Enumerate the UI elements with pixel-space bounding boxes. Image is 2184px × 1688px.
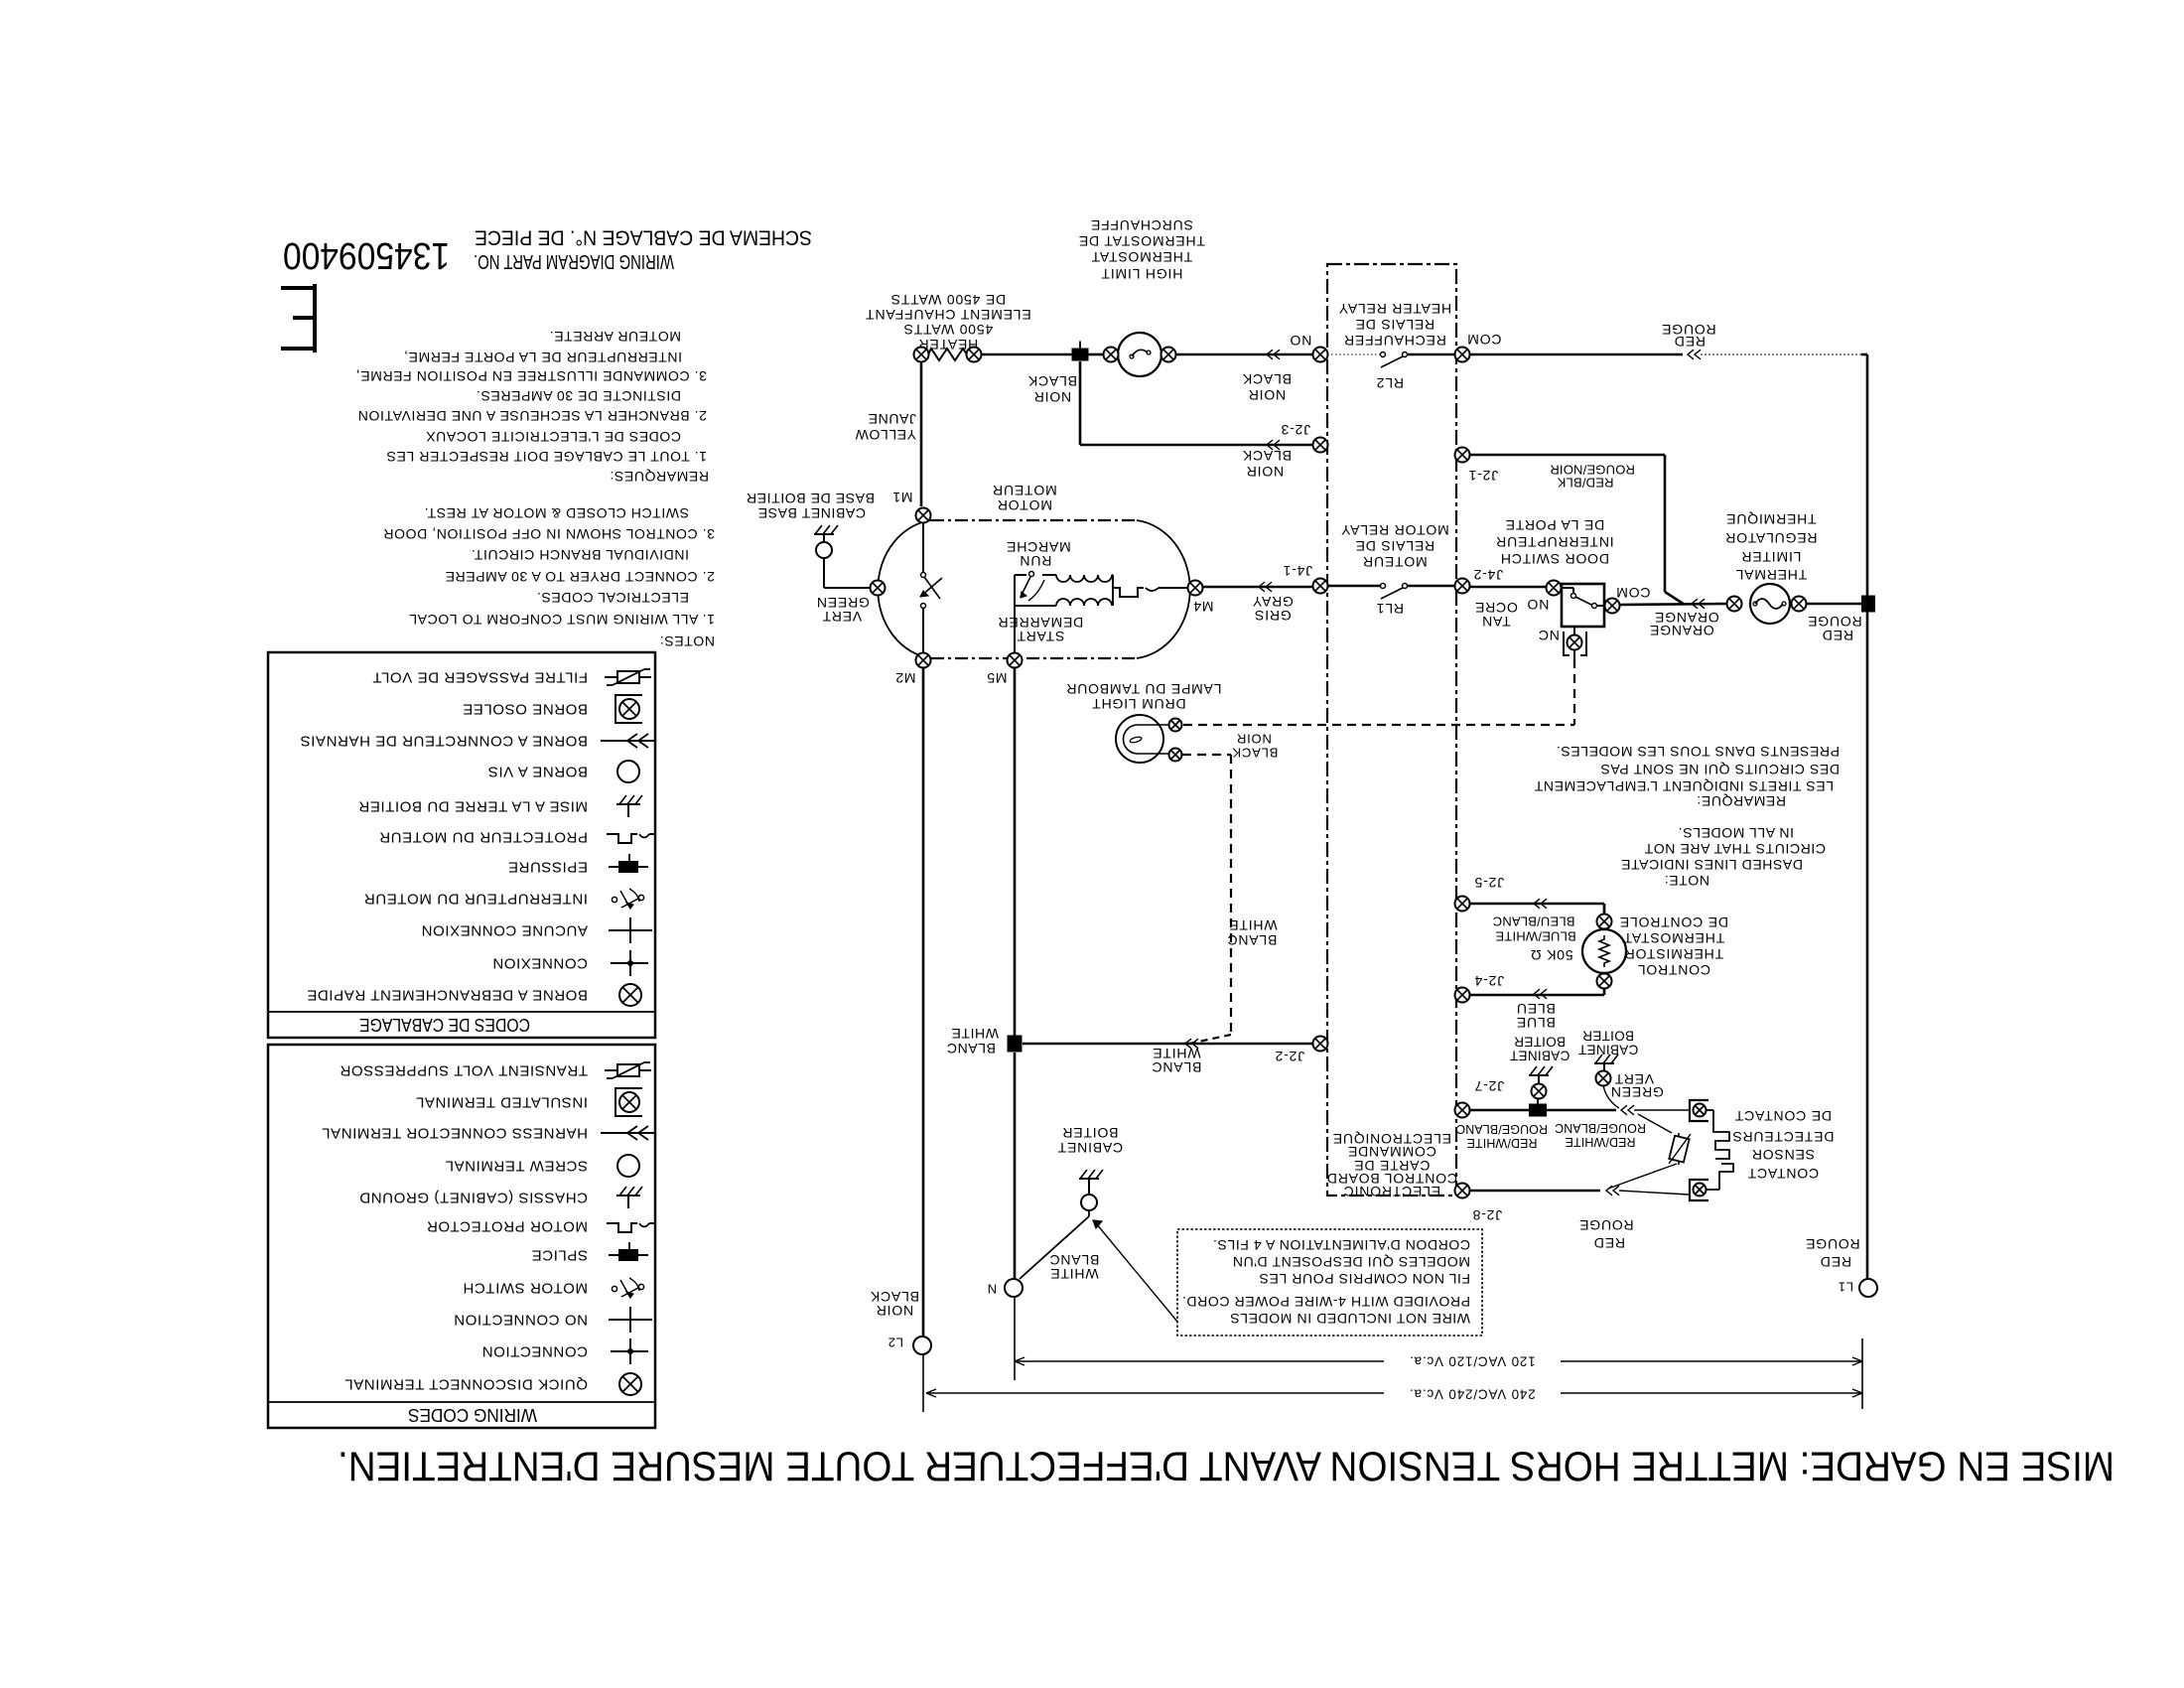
wire splice to heater element (981, 353, 1072, 356)
svg-text:ROUGE: ROUGE (1578, 1217, 1633, 1233)
svg-text:DASHED LINES INDICATE: DASHED LINES INDICATE (1621, 857, 1804, 873)
svg-text:SCREW TERMINAL: SCREW TERMINAL (445, 1158, 588, 1175)
svg-text:MOTOR PROTECTOR: MOTOR PROTECTOR (426, 1218, 588, 1235)
svg-text:TAN: TAN (1481, 614, 1510, 630)
svg-text:J2-5: J2-5 (1474, 875, 1504, 891)
legend symbol: MISE A LA TERRE DU BOITIER (358, 795, 642, 817)
terminal M5 (986, 653, 1022, 687)
svg-text:INTERRUPTEUR DU MOTEUR: INTERRUPTEUR DU MOTEUR (363, 891, 588, 908)
svg-text:BLACK: BLACK (1242, 448, 1292, 464)
svg-text:4500 WATTS: 4500 WATTS (903, 322, 993, 338)
svg-text:PROTECTEUR DU MOTEUR: PROTECTEUR DU MOTEUR (379, 829, 588, 846)
svg-text:M1: M1 (891, 490, 912, 505)
notes block NOTES (English) (383, 505, 715, 649)
svg-text:DE CONTROLE: DE CONTROLE (1619, 914, 1728, 930)
terminal NO of RL2 (1290, 333, 1328, 362)
splice L1 bus to thermal limiter (1861, 596, 1875, 613)
svg-text:NOIR: NOIR (1248, 387, 1286, 403)
svg-text:MOTEUR: MOTEUR (1362, 554, 1427, 570)
legend symbol: PROTECTEUR DU MOTEUR (379, 829, 654, 846)
svg-text:BLACK: BLACK (1232, 746, 1279, 761)
svg-text:J4-2: J4-2 (1473, 567, 1503, 583)
svg-text:BLANC: BLANC (1152, 1059, 1202, 1075)
wire GRAY M4 to J4-1 (1203, 582, 1313, 624)
svg-text:CABINET: CABINET (1578, 1043, 1639, 1057)
terminal thermal limiter left (1727, 597, 1742, 612)
svg-text:IN ALL MODELS.: IN ALL MODELS. (1678, 825, 1794, 841)
svg-text:NO CONNECTION: NO CONNECTION (454, 1312, 588, 1329)
cabinet ground at J2-7 splice (1510, 1035, 1570, 1105)
terminal M4 (1188, 581, 1214, 616)
legend box WIRING CODES (English) (268, 1045, 655, 1428)
svg-text:LAMPE DU TAMBOUR: LAMPE DU TAMBOUR (1066, 681, 1222, 697)
svg-text:VERT: VERT (822, 609, 862, 625)
svg-text:DRUM LIGHT: DRUM LIGHT (1091, 696, 1185, 712)
legend symbol: HARNESS CONNECTOR TERMINAL (322, 1125, 655, 1142)
svg-text:N: N (987, 1282, 997, 1297)
svg-text:CORDON D'ALIMENTATION A 4 FILS: CORDON D'ALIMENTATION A 4 FILS. (1212, 1237, 1470, 1253)
legend symbol: FILTRE PASSAGER DE VOLT (372, 669, 651, 686)
warning text MISE EN GARDE (338, 1444, 2115, 1490)
svg-text:SCHEMA DE CABLAGE N°. DE PIECE: SCHEMA DE CABLAGE N°. DE PIECE (475, 226, 812, 249)
svg-text:GRIS: GRIS (1254, 608, 1291, 624)
svg-text:ROUGE/BLANC: ROUGE/BLANC (1555, 1121, 1646, 1135)
svg-text:THERMOSTAT: THERMOSTAT (1091, 249, 1192, 265)
svg-text:M2: M2 (894, 670, 915, 686)
motor centrifugal switch (920, 522, 942, 655)
svg-text:EPISSURE: EPISSURE (507, 859, 588, 876)
wire WHITE ground jumper at N (1020, 1210, 1099, 1282)
svg-text:DE CONTACT: DE CONTACT (1734, 1108, 1832, 1124)
svg-text:BORNE A VIS: BORNE A VIS (487, 764, 588, 780)
svg-text:REMARQUE:: REMARQUE: (1697, 793, 1786, 809)
svg-text:ROUGE: ROUGE (1805, 1236, 1859, 1252)
svg-text:BOITER: BOITER (1062, 1125, 1119, 1141)
svg-text:J2-1: J2-1 (1468, 468, 1498, 484)
wire RED/BLK J2-1 to door switch COM junction (1469, 455, 1685, 605)
svg-text:WIRE NOT INCLUDED IN MODELS: WIRE NOT INCLUDED IN MODELS (1230, 1311, 1470, 1327)
svg-text:PROVIDED WITH 4-WIRE POWER COR: PROVIDED WITH 4-WIRE POWER CORD. (1181, 1294, 1470, 1310)
wire RED main L1 bus (1805, 354, 1867, 1279)
svg-text:TRANSIENT VOLT SUPPRESSOR: TRANSIENT VOLT SUPPRESSOR (340, 1062, 588, 1079)
svg-text:MODELES QUI DESPOSENT D'UN: MODELES QUI DESPOSENT D'UN (1232, 1254, 1470, 1270)
svg-text:1. TOUT LE CABLAGE DOIT RESPEC: 1. TOUT LE CABLAGE DOIT RESPECTER LES (386, 449, 707, 465)
cabinet base ground at motor (746, 491, 878, 588)
wire dashed NC to drum light (1183, 659, 1574, 761)
svg-text:BLACK: BLACK (870, 1289, 919, 1305)
callout leader arrow (1093, 1220, 1177, 1322)
title text SCHEMA DE CABLAGE (475, 226, 812, 249)
svg-text:ELECTRICAL CODES.: ELECTRICAL CODES. (536, 590, 689, 606)
svg-text:SWITCH CLOSED & MOTOR AT REST.: SWITCH CLOSED & MOTOR AT REST. (424, 505, 689, 521)
svg-text:MARCHE: MARCHE (1006, 539, 1070, 555)
svg-text:FIL NON COMPRIS POUR LES: FIL NON COMPRIS POUR LES (1259, 1271, 1470, 1287)
svg-text:ORANGE: ORANGE (1649, 623, 1713, 638)
terminal high limit right (1161, 348, 1176, 362)
wire BLUE/WHITE J2-5 to thermistor (1469, 899, 1604, 943)
svg-text:WIRING DIAGRAM PART NO.: WIRING DIAGRAM PART NO. (474, 250, 674, 272)
svg-text:3. COMMANDE ILLUSTREE EN POSIT: 3. COMMANDE ILLUSTREE EN POSITION FERME, (355, 368, 707, 384)
svg-text:BLANC: BLANC (1049, 1252, 1100, 1268)
legend symbol: BORNE OSOLEE (463, 695, 642, 723)
wire TAN J4-2 to door switch NO (1469, 587, 1547, 630)
svg-text:HEATER RELAY: HEATER RELAY (1338, 301, 1451, 317)
svg-text:ROUGE: ROUGE (1807, 614, 1861, 630)
svg-text:50K Ω: 50K Ω (1530, 947, 1572, 963)
terminal L1 screw (1838, 1279, 1877, 1297)
svg-text:ROUGE/NOIR: ROUGE/NOIR (1550, 463, 1635, 478)
svg-text:REMARQUES:: REMARQUES: (610, 469, 709, 485)
svg-text:THERMOSTAT: THERMOSTAT (1623, 930, 1724, 946)
svg-text:RELAIS DE: RELAIS DE (1355, 538, 1434, 554)
legend symbol: QUICK DISCONNECT TERMINAL (344, 1373, 641, 1395)
terminal N screw (987, 1279, 1023, 1297)
svg-text:BOITER: BOITER (1514, 1035, 1566, 1050)
legend symbol: MOTOR SWITCH (463, 1278, 644, 1298)
svg-text:YELLOW: YELLOW (855, 427, 916, 443)
svg-text:M5: M5 (986, 670, 1007, 686)
motor run winding (1006, 539, 1113, 606)
terminal J2-2 (1275, 1037, 1328, 1065)
svg-text:CONTACT: CONTACT (1747, 1166, 1819, 1182)
terminal J2-4 (1455, 973, 1505, 1003)
wire dashed WHITE drum light to white splice junction (1182, 755, 1278, 1044)
svg-text:CODES DE CABALAGE: CODES DE CABALAGE (359, 1015, 530, 1035)
legend box CODES DE CABALAGE (French wiring codes) (268, 652, 655, 1038)
note block REMARQUE dashed-lines (French) (1534, 744, 1840, 809)
motor internal protector (1113, 588, 1187, 597)
svg-text:REGULATOR: REGULATOR (1724, 530, 1817, 546)
svg-text:AUCUNE CONNEXION: AUCUNE CONNEXION (421, 922, 588, 939)
svg-text:NOIR: NOIR (876, 1303, 913, 1319)
terminal J4-2 (1455, 567, 1504, 594)
svg-text:DE 4500 WATTS: DE 4500 WATTS (890, 292, 1006, 308)
control thermistor 50K (1530, 914, 1728, 978)
legend symbol: MOTOR PROTECTOR (426, 1218, 654, 1235)
terminal door switch COM (1605, 585, 1651, 614)
terminal M2 (894, 653, 930, 687)
svg-text:DES CIRCUITS QUI NE SONT PAS: DES CIRCUITS QUI NE SONT PAS (1600, 762, 1840, 777)
svg-text:RED: RED (1820, 1254, 1851, 1270)
svg-text:BLEU/BLANC: BLEU/BLANC (1493, 914, 1575, 929)
svg-text:INTERRUPTEUR: INTERRUPTEUR (1495, 534, 1613, 550)
svg-text:MISE A LA TERRE DU BOITIER: MISE A LA TERRE DU BOITIER (358, 798, 588, 815)
svg-text:2. CONNECT DRYER TO A 30 AMPER: 2. CONNECT DRYER TO A 30 AMPERE (445, 569, 715, 585)
wire YELLOW heater to motor M1 (855, 361, 921, 506)
svg-text:GREEN: GREEN (1610, 1084, 1664, 1100)
terminal thermistor top (1597, 914, 1612, 929)
terminal thermistor bottom (1597, 974, 1612, 989)
terminal drum light bottom (1169, 749, 1182, 762)
svg-text:THERMAL: THERMAL (1735, 567, 1808, 583)
wire ORANGE thermal limiter to door switch COM (1619, 599, 1727, 638)
svg-text:ELEMENT CHAUFFANT: ELEMENT CHAUFFANT (865, 307, 1030, 323)
svg-text:LES TIRETS INDIQUENT L'EMPLACE: LES TIRETS INDIQUENT L'EMPLACEMENT (1534, 778, 1834, 794)
legend symbol: AUCUNE CONNEXION (421, 917, 652, 943)
svg-text:GREEN: GREEN (816, 595, 870, 611)
svg-text:CONTROL: CONTROL (1637, 962, 1710, 978)
svg-text:WHITE: WHITE (1228, 917, 1277, 933)
terminal COM of RL2 (1455, 332, 1502, 362)
thermal limiter regulator thermique (1724, 511, 1861, 643)
svg-text:1. ALL WIRING MUST CONFORM TO: 1. ALL WIRING MUST CONFORM TO LOCAL (409, 612, 715, 628)
relay RL1 motor relay (1327, 522, 1455, 617)
svg-text:JAUNE: JAUNE (868, 411, 916, 427)
wire GREEN motor ground (816, 595, 870, 625)
wire BLACK M2 down to L2 (870, 668, 923, 1336)
svg-text:WHITE: WHITE (1152, 1046, 1200, 1061)
svg-text:SURCHAUFFE: SURCHAUFFE (1090, 217, 1193, 233)
svg-text:RECHAUFFER: RECHAUFFER (1343, 333, 1446, 349)
svg-text:FILTRE PASSAGER DE VOLT: FILTRE PASSAGER DE VOLT (372, 669, 588, 686)
svg-text:BLEU: BLEU (1516, 1001, 1556, 1017)
svg-text:BLACK: BLACK (1242, 371, 1292, 387)
svg-text:WHITE: WHITE (951, 1026, 999, 1042)
svg-text:NOIR: NOIR (1033, 389, 1071, 405)
white splice (1008, 1036, 1023, 1053)
svg-text:CIRCIUTS THAT ARE NOT: CIRCIUTS THAT ARE NOT (1644, 841, 1826, 857)
contact sensor (1690, 1100, 1834, 1200)
svg-text:CABINET: CABINET (1510, 1049, 1570, 1063)
legend symbol: EPISSURE (507, 854, 648, 876)
terminal M1 (891, 490, 930, 523)
wire BLACK splice down to J2-3 (1080, 361, 1313, 480)
motor MOTEUR (stadium outline) (878, 483, 1189, 658)
terminal J2-1 (1455, 448, 1499, 485)
svg-text:MOTOR RELAY: MOTOR RELAY (1340, 522, 1448, 538)
splice on J2-7 wire (1529, 1104, 1547, 1117)
svg-text:CABINET BASE: CABINET BASE (757, 505, 866, 521)
terminal door switch NO (1547, 581, 1562, 596)
dimension line 120 VAC (1015, 1297, 1862, 1380)
svg-text:RED/WHITE: RED/WHITE (1565, 1135, 1635, 1149)
terminal sensor bottom (1694, 1184, 1706, 1196)
svg-text:ROUGE/BLANC: ROUGE/BLANC (1456, 1122, 1548, 1136)
legend symbol: BORNE A DEBRANCHEMENT RAPIDE (307, 984, 641, 1006)
terminal J2-5 (1455, 875, 1505, 912)
cabinet ground at N (1057, 1125, 1123, 1210)
legend symbol: CONNEXION (492, 950, 648, 976)
legend symbol: NO CONNECTION (454, 1307, 652, 1333)
terminal motor ground green (871, 581, 886, 596)
svg-text:MOTEUR ARRETE.: MOTEUR ARRETE. (549, 329, 681, 345)
wire BLACK heater relay NO to high limit (1175, 350, 1313, 403)
svg-text:RUN: RUN (1020, 553, 1052, 569)
svg-text:GRAY: GRAY (1252, 594, 1294, 610)
svg-text:INTERRUPTEUR DE LA PORTE FERME: INTERRUPTEUR DE LA PORTE FERME, (404, 350, 683, 365)
svg-text:2. BRANCHER LA SECHEUSE A UNE: 2. BRANCHER LA SECHEUSE A UNE DERIVATION (357, 408, 707, 424)
svg-text:3. CONTROL SHOWN IN OFF POSITI: 3. CONTROL SHOWN IN OFF POSITION, DOOR (383, 526, 715, 542)
svg-text:J2-4: J2-4 (1474, 973, 1504, 989)
svg-text:BLUE: BLUE (1516, 1015, 1556, 1031)
svg-text:BASE DE BOITIER: BASE DE BOITIER (746, 491, 875, 506)
terminal sensor top (1694, 1104, 1706, 1117)
svg-text:QUICK DISCONNECT TERMINAL: QUICK DISCONNECT TERMINAL (344, 1376, 588, 1393)
svg-text:RED: RED (1822, 628, 1853, 643)
svg-text:COM: COM (1615, 585, 1650, 601)
legend symbol: INTERRUPTEUR DU MOTEUR (363, 889, 643, 909)
svg-text:WHITE: WHITE (1049, 1266, 1098, 1282)
terminal J2-8 (1455, 1184, 1503, 1224)
svg-text:CONNECTION: CONNECTION (481, 1343, 588, 1360)
svg-text:BLACK: BLACK (1027, 373, 1077, 389)
revision letter E mark (281, 284, 315, 352)
sensor thermistor element (1608, 1114, 1691, 1189)
terminal heater right (967, 348, 982, 362)
wire RED from L1 bus to heater relay COM (1469, 322, 1861, 359)
svg-text:NOIR: NOIR (1246, 464, 1284, 480)
terminal heater left (914, 348, 929, 362)
svg-text:RED/BLK: RED/BLK (1557, 476, 1613, 491)
svg-text:BLANC: BLANC (946, 1041, 996, 1056)
dimension line 240 VAC (923, 1338, 1862, 1412)
svg-text:BORNE A CONNRCTEUR DE HARNAIS: BORNE A CONNRCTEUR DE HARNAIS (300, 733, 588, 750)
svg-text:HARNESS CONNECTOR TERMINAL: HARNESS CONNECTOR TERMINAL (322, 1125, 588, 1142)
relay RL2 heater relay (1327, 301, 1455, 391)
svg-text:NOTE:: NOTE: (1664, 873, 1709, 889)
svg-text:COM: COM (1466, 332, 1501, 348)
motor start switch (1021, 572, 1044, 602)
legend symbol: SCREW TERMINAL (445, 1155, 639, 1177)
terminal thermal limiter right (1792, 597, 1807, 612)
svg-text:NO: NO (1290, 333, 1312, 349)
svg-text:LIMITER: LIMITER (1741, 549, 1802, 565)
svg-text:PRESENTS DANS TOUS LES MODELES: PRESENTS DANS TOUS LES MODELES. (1556, 744, 1840, 760)
svg-text:240 VAC/240 Vc.a.: 240 VAC/240 Vc.a. (1409, 1387, 1535, 1402)
svg-text:SENSOR: SENSOR (1751, 1147, 1815, 1163)
heater element 4500W resistor (865, 292, 1030, 360)
svg-text:INSULATED TERMINAL: INSULATED TERMINAL (415, 1094, 588, 1111)
svg-text:J4-1: J4-1 (1283, 563, 1312, 579)
svg-text:BORNE A DEBRANCHEMENT RAPIDE: BORNE A DEBRANCHEMENT RAPIDE (307, 987, 588, 1004)
wire BLACK high limit to splice (1027, 354, 1104, 405)
svg-text:THERMISTOR: THERMISTOR (1624, 946, 1723, 962)
terminal J2-7 (1455, 1078, 1505, 1118)
svg-text:DISTINCTE DE 30 AMPERES.: DISTINCTE DE 30 AMPERES. (476, 388, 681, 404)
svg-text:CONNEXION: CONNEXION (492, 955, 588, 972)
legend symbol: INSULATED TERMINAL (415, 1088, 642, 1116)
svg-text:BOITER: BOITER (1582, 1029, 1634, 1044)
svg-text:RL1: RL1 (1376, 601, 1404, 617)
wire RED J2-8 to sensor (1469, 1186, 1689, 1251)
svg-text:RL2: RL2 (1376, 375, 1404, 391)
svg-text:CODES DE L'ELECTRICITE LOCAUX: CODES DE L'ELECTRICITE LOCAUX (426, 429, 681, 445)
svg-text:THERMOSTAT DE: THERMOSTAT DE (1078, 233, 1205, 249)
svg-text:RELAIS DE: RELAIS DE (1355, 317, 1434, 333)
svg-text:DE LA PORTE: DE LA PORTE (1505, 517, 1604, 533)
legend symbol: CONNECTION (481, 1338, 648, 1364)
notes block REMARQUES (French) (355, 329, 709, 485)
svg-text:RED: RED (1593, 1235, 1625, 1251)
thermostat high limit (1078, 217, 1205, 376)
svg-text:BLANC: BLANC (1227, 932, 1278, 948)
svg-text:M4: M4 (1192, 599, 1213, 615)
svg-text:L1: L1 (1838, 1280, 1853, 1295)
svg-text:RED/WHITE: RED/WHITE (1466, 1136, 1537, 1150)
wire BLUE J2-4 to thermistor (1469, 988, 1604, 1031)
svg-text:MISE EN GARDE: METTRE HORS TEN: MISE EN GARDE: METTRE HORS TENSION AVANT… (338, 1444, 2115, 1490)
svg-text:RED: RED (1674, 334, 1706, 350)
svg-text:CHASSIS (CABINET) GROUND: CHASSIS (CABINET) GROUND (359, 1190, 588, 1206)
note block NOTE dashed-lines (English) (1621, 825, 1827, 889)
svg-text:NOTES:: NOTES: (659, 633, 715, 649)
splice on heater black wire (1072, 342, 1089, 361)
legend symbol: CHASSIS (CABINET) GROUND (359, 1187, 642, 1208)
legend symbol: TRANSIENT VOLT SUPPRESSOR (340, 1062, 651, 1079)
svg-text:MOTOR SWITCH: MOTOR SWITCH (463, 1280, 588, 1297)
drum light lamp (1066, 681, 1222, 763)
svg-text:NO: NO (1527, 597, 1550, 613)
motor start winding (998, 599, 1112, 653)
terminal drum light top (1169, 719, 1182, 732)
svg-text:L2: L2 (887, 1336, 903, 1350)
svg-text:ELECTRONIC: ELECTRONIC (1343, 1184, 1440, 1199)
terminal L2 screw (887, 1336, 931, 1355)
svg-text:J2-8: J2-8 (1472, 1207, 1502, 1223)
svg-text:INDIVIDUAL BRANCH CIRCUIT.: INDIVIDUAL BRANCH CIRCUIT. (471, 547, 689, 563)
svg-text:WIRING CODES: WIRING CODES (408, 1405, 537, 1425)
svg-text:134509400: 134509400 (283, 234, 450, 276)
cabinet ground green at sensor (1578, 1029, 1664, 1109)
wire WHITE M5 down to N (946, 668, 1015, 1278)
svg-text:HIGH LIMIT: HIGH LIMIT (1101, 266, 1183, 282)
terminal J2-3 (1281, 422, 1328, 453)
svg-text:NOIR: NOIR (1236, 732, 1272, 747)
legend symbol: BORNE A VIS (487, 761, 639, 782)
svg-text:SPLICE: SPLICE (531, 1247, 588, 1264)
legend symbol: SPLICE (531, 1242, 648, 1264)
svg-text:BLUE/WHITE: BLUE/WHITE (1495, 929, 1576, 944)
wire WHITE splice to J2-2 (1023, 1039, 1313, 1075)
svg-text:J2-3: J2-3 (1281, 422, 1310, 438)
svg-text:START: START (1017, 629, 1065, 644)
svg-text:J2-2: J2-2 (1275, 1049, 1304, 1064)
wire RED/WHITE J2-7 to sensor (1456, 1105, 1689, 1150)
svg-text:CABINET: CABINET (1057, 1140, 1123, 1156)
svg-text:MOTEUR: MOTEUR (992, 483, 1056, 498)
callout box wire not included note (1177, 1229, 1482, 1336)
svg-text:OCRE: OCRE (1474, 600, 1518, 616)
door switch interrupteur de la porte (1495, 517, 1613, 643)
svg-text:120 VAC/120 Vc.a.: 120 VAC/120 Vc.a. (1409, 1354, 1535, 1369)
svg-text:DOOR SWITCH: DOOR SWITCH (1500, 551, 1609, 567)
svg-text:MOTOR: MOTOR (997, 497, 1052, 513)
legend symbol: BORNE A CONNRCTEUR DE HARNAIS (300, 733, 655, 750)
svg-text:DETECTEURS: DETECTEURS (1732, 1129, 1835, 1145)
svg-text:J2-7: J2-7 (1474, 1078, 1504, 1094)
svg-text:BORNE OSOLEE: BORNE OSOLEE (463, 701, 588, 718)
title text WIRING DIAGRAM PART NO. (474, 250, 674, 272)
svg-text:NC: NC (1538, 628, 1560, 643)
svg-text:THERMIQUE: THERMIQUE (1725, 511, 1816, 527)
electronic control board (dash-dot box) (1326, 264, 1457, 1199)
part number label 134509400 (283, 234, 450, 276)
terminal J4-1 (1283, 563, 1328, 594)
svg-text:COMMANDE: COMMANDE (1347, 1144, 1436, 1160)
terminal high limit left (1104, 348, 1119, 362)
svg-text:DEMARRER: DEMARRER (998, 615, 1084, 631)
terminal door switch NC with bracket (1564, 627, 1586, 659)
